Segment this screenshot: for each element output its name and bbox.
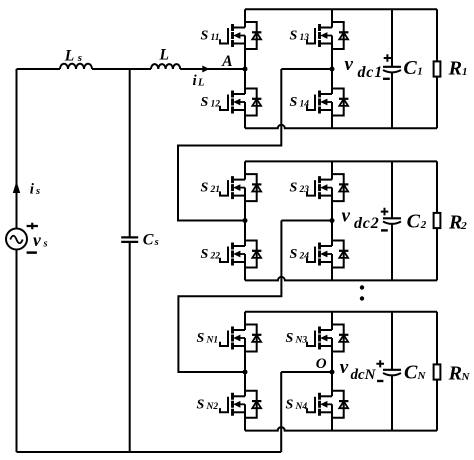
transistor S11: [220, 22, 261, 49]
svg-text:v: v: [33, 230, 41, 250]
label CN minus: [377, 380, 383, 382]
svg-text:N4: N4: [295, 402, 308, 412]
capacitor Cs: [129, 69, 131, 452]
svg-text:N3: N3: [295, 336, 308, 346]
svg-text:S: S: [290, 247, 298, 262]
svg-text:i: i: [193, 73, 198, 89]
svg-text:1: 1: [417, 65, 423, 77]
svg-text:N2: N2: [206, 402, 219, 412]
svg-text:dcN: dcN: [351, 367, 377, 383]
wire: cell1 right leg: [331, 9, 333, 128]
resistor RN: [436, 312, 438, 431]
svg-text:L: L: [64, 47, 74, 64]
label CN plus: [376, 360, 384, 367]
wire: cellN bottom rail with crossover hop: [245, 427, 437, 430]
svg-text:C: C: [143, 232, 154, 249]
wire: bottom return: [17, 451, 282, 453]
svg-text:C: C: [404, 362, 418, 384]
wire: cell2 bottom rail with crossover hop: [245, 277, 437, 280]
svg-text:s: s: [77, 52, 82, 64]
transistor SN1: [220, 325, 261, 352]
svg-text:v: v: [345, 54, 354, 75]
svg-text:R: R: [448, 58, 462, 80]
label vs minus: [27, 251, 37, 254]
transistor S13: [307, 22, 348, 49]
svg-text:s: s: [35, 186, 40, 197]
wire: cellN mid wire: [281, 371, 332, 373]
svg-text:21: 21: [210, 185, 221, 195]
svg-text:S: S: [286, 331, 294, 346]
svg-text:S: S: [286, 397, 294, 412]
wire: cellN output to bottom return: [280, 372, 282, 452]
svg-text:N1: N1: [206, 336, 219, 346]
svg-text:11: 11: [211, 33, 220, 43]
svg-text:22: 22: [210, 252, 221, 262]
wire: cell2 to cellN link: [178, 221, 281, 373]
wire: cell2 top rail: [245, 160, 437, 162]
label C2 plus: [381, 208, 389, 216]
capacitor C1: [391, 9, 393, 128]
capacitor C2: [391, 161, 393, 280]
svg-text:O: O: [316, 356, 327, 372]
label C1 plus: [384, 54, 392, 62]
svg-text:2: 2: [420, 219, 427, 231]
wire: top horizontal from source to node A: [17, 68, 246, 70]
svg-text:S: S: [201, 95, 209, 110]
svg-text:N: N: [417, 370, 427, 382]
wire: cell1 to cell2 link: [178, 69, 281, 221]
wire: cellN top rail: [245, 311, 437, 313]
svg-text:C: C: [407, 210, 421, 232]
svg-text:24: 24: [299, 252, 310, 262]
label C1 minus: [383, 78, 390, 80]
svg-text:S: S: [197, 331, 205, 346]
resistor R2: [436, 161, 438, 280]
wire: cellN right leg: [331, 312, 333, 431]
node: cell2 left mid dot: [243, 218, 248, 223]
svg-text:v: v: [342, 205, 351, 226]
svg-text:S: S: [197, 397, 205, 412]
svg-text:S: S: [201, 181, 209, 196]
svg-text:C: C: [403, 57, 417, 79]
transistor SN2: [220, 391, 261, 418]
svg-text:N: N: [461, 371, 471, 383]
inductor Ls: [60, 64, 92, 69]
svg-text:R: R: [448, 211, 462, 233]
inductor L: [151, 64, 180, 69]
wire: cell1 left leg: [244, 9, 246, 128]
wire: cell2 mid wire: [281, 220, 332, 222]
transistor SN4: [307, 391, 348, 418]
wire: cell1 mid wire: [281, 68, 332, 70]
svg-text:dc1: dc1: [358, 64, 384, 81]
svg-text:S: S: [201, 29, 209, 44]
wire: cell1 top rail: [245, 8, 437, 10]
svg-text:A: A: [221, 53, 232, 70]
svg-text:S: S: [290, 181, 298, 196]
node: cell1 right mid dot: [330, 67, 335, 72]
label vs plus: [27, 223, 38, 230]
node O dot: [330, 370, 335, 375]
capacitor CN: [391, 312, 393, 431]
svg-text:L: L: [197, 78, 204, 89]
transistor SN3: [307, 325, 348, 352]
svg-text:L: L: [159, 47, 169, 64]
svg-text:2: 2: [460, 220, 467, 232]
svg-text:s: s: [154, 237, 159, 248]
svg-text:12: 12: [211, 100, 221, 110]
svg-text:S: S: [290, 29, 298, 44]
transistor S23: [307, 174, 348, 201]
svg-text:23: 23: [299, 185, 310, 195]
wire: cell2 right leg: [331, 161, 333, 280]
transistor S12: [220, 89, 261, 116]
wire: left vertical above source: [16, 69, 18, 229]
AC source vs: [6, 229, 27, 250]
transistor S22: [220, 241, 261, 268]
node: cell2 right mid dot: [330, 218, 335, 223]
transistor S21: [220, 174, 261, 201]
svg-text:dc2: dc2: [354, 215, 380, 232]
label C2 minus: [381, 229, 388, 231]
arrow iL: [202, 66, 209, 73]
wire: cellN left leg: [244, 312, 246, 431]
transistor S14: [307, 89, 348, 116]
svg-text:v: v: [340, 357, 349, 378]
node: cellN left mid dot: [243, 370, 248, 375]
arrow is: [13, 181, 20, 193]
svg-text:14: 14: [300, 100, 310, 110]
wire: cell2 left leg: [244, 161, 246, 280]
svg-text:s: s: [43, 238, 48, 249]
wire: cell1 bottom rail with crossover hop: [245, 125, 437, 128]
ellipsis dots: [360, 285, 364, 289]
node A dot: [243, 67, 248, 72]
svg-text:R: R: [448, 363, 462, 385]
transistor S24: [307, 241, 348, 268]
resistor R1: [436, 9, 438, 128]
svg-text:1: 1: [462, 66, 468, 78]
svg-text:i: i: [30, 181, 35, 197]
wire: left vertical below source: [16, 250, 18, 453]
svg-text:S: S: [290, 95, 298, 110]
svg-text:S: S: [201, 247, 209, 262]
svg-text:13: 13: [300, 33, 310, 43]
